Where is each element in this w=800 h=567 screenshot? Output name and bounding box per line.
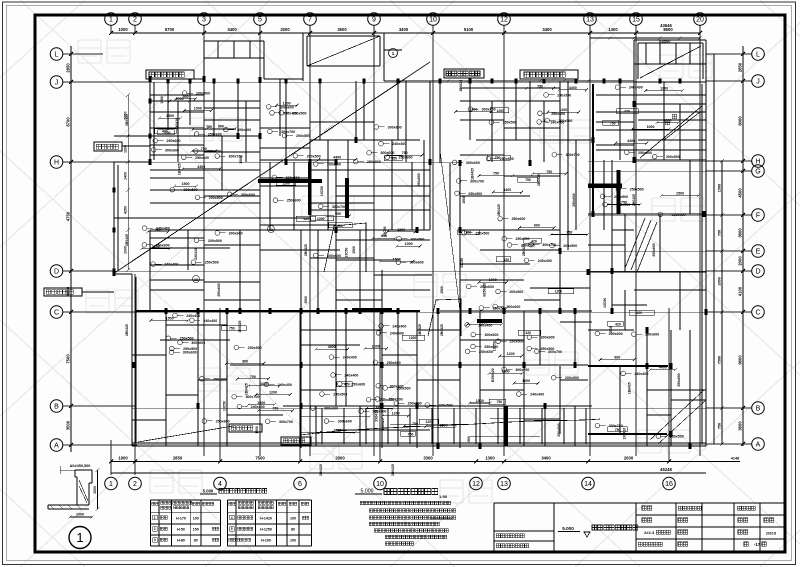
svg-text:300x600: 300x600 (237, 128, 251, 132)
heavy bar C4 (477, 319, 502, 323)
svg-text:3400: 3400 (227, 27, 237, 32)
svg-text:9: 9 (372, 17, 376, 24)
svg-text:7500: 7500 (255, 456, 265, 461)
svg-text:250x500: 250x500 (500, 157, 514, 161)
svg-text:240x400: 240x400 (634, 372, 648, 376)
svg-text:4400: 4400 (627, 139, 635, 143)
svg-text:750: 750 (408, 432, 414, 436)
svg-text:A0#450,500: A0#450,500 (70, 464, 91, 468)
svg-text:8000: 8000 (738, 116, 743, 126)
svg-text:240x400: 240x400 (629, 86, 643, 90)
svg-text:900: 900 (534, 224, 540, 228)
svg-text:300x600: 300x600 (338, 420, 352, 424)
svg-text:5700: 5700 (165, 27, 175, 32)
svg-text:250x500: 250x500 (557, 93, 571, 97)
svg-text:1B0425: 1B0425 (178, 163, 182, 175)
svg-text:2: 2 (133, 17, 137, 24)
svg-text:240x400: 240x400 (186, 314, 200, 318)
svg-text:750: 750 (272, 407, 278, 411)
svg-text:13C50: 13C50 (222, 401, 226, 411)
svg-text:900: 900 (381, 234, 387, 238)
svg-text:250x600: 250x600 (417, 173, 421, 186)
svg-text:1500: 1500 (239, 156, 243, 164)
svg-text:200x500: 200x500 (286, 176, 300, 180)
svg-text:250x600: 250x600 (557, 423, 561, 436)
svg-text:3: 3 (202, 17, 206, 24)
svg-text:6: 6 (298, 481, 302, 488)
svg-text:750: 750 (412, 422, 418, 426)
svg-text:750: 750 (566, 231, 572, 235)
svg-text:200x500: 200x500 (209, 196, 223, 200)
svg-text:H-50: H-50 (177, 528, 185, 532)
svg-text:H-100: H-100 (261, 539, 271, 543)
svg-text:250x600: 250x600 (195, 156, 209, 160)
svg-text:13C50: 13C50 (603, 298, 607, 308)
svg-text:G: G (755, 169, 760, 176)
svg-text:1500: 1500 (166, 316, 174, 320)
svg-text:240x400: 240x400 (283, 111, 297, 115)
svg-text:1000: 1000 (176, 97, 184, 101)
svg-text:13C50: 13C50 (460, 258, 464, 268)
svg-text:1500: 1500 (255, 426, 259, 434)
canopy label bottom (229, 424, 262, 432)
svg-text:300x600: 300x600 (506, 305, 520, 309)
svg-text:300x700: 300x700 (279, 420, 293, 424)
svg-text:300x600: 300x600 (183, 351, 197, 355)
svg-text:H-1420: H-1420 (260, 516, 272, 520)
svg-text:300x700: 300x700 (207, 150, 221, 154)
svg-text:80: 80 (194, 539, 198, 543)
svg-text:4750: 4750 (66, 211, 71, 221)
svg-text:300x700: 300x700 (609, 424, 623, 428)
title block (494, 503, 785, 551)
heavy bar left mid (345, 178, 349, 218)
svg-text:14: 14 (584, 481, 592, 488)
svg-text:3500: 3500 (66, 420, 71, 430)
svg-text:4400: 4400 (569, 86, 577, 90)
svg-text:250x600: 250x600 (351, 382, 365, 386)
svg-text:1200: 1200 (269, 391, 277, 395)
svg-text:750: 750 (621, 200, 627, 204)
svg-text:750: 750 (525, 178, 531, 182)
svg-text:1500: 1500 (440, 286, 444, 294)
svg-text:300x600: 300x600 (466, 161, 480, 165)
svg-text:1500: 1500 (676, 191, 684, 195)
svg-text:300x700: 300x700 (281, 130, 295, 134)
svg-text:250x600: 250x600 (645, 333, 659, 337)
svg-text:1200: 1200 (409, 336, 417, 340)
svg-text:250x500: 250x500 (503, 121, 517, 125)
svg-text:C: C (755, 310, 760, 317)
bottom axis circles (105, 477, 118, 490)
small column blobs (148, 76, 151, 82)
svg-text:13: 13 (586, 17, 594, 24)
svg-text:2010.8: 2010.8 (766, 532, 776, 536)
svg-text:1B0425: 1B0425 (244, 383, 248, 395)
svg-text:1500: 1500 (718, 184, 722, 192)
title block right cells (642, 506, 646, 510)
svg-text:4400: 4400 (260, 382, 268, 386)
axis stubs horizontal (63, 53, 103, 55)
svg-text:3: 3 (154, 538, 156, 542)
detail number circle (69, 527, 91, 549)
svg-text:2B0425: 2B0425 (125, 114, 129, 126)
svg-text:750: 750 (718, 230, 722, 236)
svg-text:250x600: 250x600 (217, 283, 221, 296)
svg-text:5: 5 (258, 17, 262, 24)
svg-text:300x600: 300x600 (541, 336, 555, 340)
interior beams horizontal (150, 100, 260, 102)
svg-text:1500: 1500 (160, 96, 164, 104)
svg-text:B250x20: B250x20 (491, 368, 495, 382)
svg-text:1B0425: 1B0425 (418, 324, 422, 336)
svg-text:200x500: 200x500 (208, 239, 222, 243)
svg-text:900: 900 (481, 321, 487, 325)
svg-text:420: 420 (303, 217, 309, 221)
diagonal tag circles (268, 226, 275, 233)
svg-text:2X0416: 2X0416 (623, 428, 627, 440)
svg-text:250x600: 250x600 (216, 419, 230, 423)
svg-text:2X0416: 2X0416 (194, 248, 198, 260)
svg-text:240x400: 240x400 (251, 405, 265, 409)
thick beam axis C (135, 310, 420, 312)
svg-text:2850: 2850 (66, 63, 71, 73)
svg-text:200x500: 200x500 (439, 404, 453, 408)
svg-text:5: 5 (231, 527, 233, 531)
svg-text:1:50: 1:50 (439, 494, 448, 499)
svg-text:300x600: 300x600 (380, 151, 394, 155)
svg-text:1500: 1500 (467, 436, 471, 444)
svg-text:900: 900 (335, 212, 341, 216)
svg-text:750: 750 (201, 147, 207, 151)
svg-text:1B0425: 1B0425 (627, 382, 631, 394)
svg-text:2000: 2000 (280, 27, 290, 32)
svg-text:7: 7 (308, 17, 312, 24)
svg-text:300x600: 300x600 (327, 254, 341, 258)
svg-text:300x700: 300x700 (566, 153, 580, 157)
svg-text:200x500: 200x500 (408, 402, 422, 406)
svg-text:E: E (756, 249, 761, 256)
right axis circles (752, 48, 765, 61)
svg-text:250x500: 250x500 (468, 192, 482, 196)
watermark glyphs (78, 40, 712, 503)
svg-text:750: 750 (250, 375, 256, 379)
heavy cross wall (588, 184, 622, 189)
svg-text:240x400: 240x400 (156, 227, 170, 231)
svg-text:2B0425: 2B0425 (537, 174, 541, 186)
svg-text:100: 100 (290, 539, 296, 543)
svg-text:8700: 8700 (66, 117, 71, 127)
svg-text:2B0425: 2B0425 (125, 234, 129, 246)
svg-text:3300: 3300 (423, 456, 433, 461)
aircon label bottom (281, 437, 311, 445)
columns along C beam and top edge (164, 308, 167, 314)
svg-text:1200: 1200 (376, 405, 384, 409)
svg-text:1200: 1200 (660, 87, 668, 91)
ramp trapezoid 2 (428, 299, 461, 336)
svg-text:5100: 5100 (464, 27, 474, 32)
left axis circles (50, 48, 63, 61)
svg-text:200x500: 200x500 (327, 162, 341, 166)
svg-text:250x500: 250x500 (614, 195, 628, 199)
heavy bar top mid (352, 308, 392, 312)
svg-text:2X0416: 2X0416 (375, 410, 379, 422)
svg-text:900: 900 (614, 356, 620, 360)
mid band extra beams (150, 247, 230, 249)
canopy label boxes on top edge (146, 70, 194, 79)
svg-text:3600: 3600 (738, 421, 743, 431)
svg-text:1200: 1200 (392, 412, 400, 416)
svg-text:13C50: 13C50 (320, 186, 324, 196)
svg-text:1500: 1500 (462, 196, 466, 204)
svg-text:F: F (756, 213, 760, 220)
wall parallels (117, 165, 119, 271)
svg-text:420: 420 (525, 331, 531, 335)
svg-text:250x500: 250x500 (180, 337, 194, 341)
svg-text:250x600: 250x600 (551, 112, 565, 116)
svg-text:1000: 1000 (194, 107, 202, 111)
svg-text:C: C (54, 310, 59, 317)
svg-text:2: 2 (133, 481, 137, 488)
svg-text:1000: 1000 (489, 278, 497, 282)
big ramp diagonal (113, 62, 430, 274)
svg-text:1400: 1400 (124, 172, 128, 180)
svg-text:1000: 1000 (647, 125, 655, 129)
svg-text:1: 1 (76, 530, 83, 545)
svg-text:750: 750 (537, 84, 543, 88)
svg-text:3400: 3400 (541, 456, 551, 461)
svg-text:250x600: 250x600 (167, 139, 181, 143)
svg-text:2#2-3: 2#2-3 (644, 530, 655, 535)
svg-text:100: 100 (290, 516, 296, 520)
svg-text:250x500: 250x500 (540, 347, 554, 351)
notes block (360, 501, 364, 505)
svg-text:1500: 1500 (609, 326, 613, 334)
svg-text:250x500: 250x500 (205, 261, 219, 265)
svg-text:7500: 7500 (66, 354, 71, 364)
svg-text:1: 1 (109, 481, 113, 488)
svg-text:1300: 1300 (608, 27, 618, 32)
bottom balcony strip divisions (299, 408, 301, 444)
svg-text:D: D (755, 269, 760, 276)
svg-text:1500: 1500 (440, 424, 448, 428)
building outline walls (150, 78, 204, 80)
svg-text:1000: 1000 (372, 345, 380, 349)
svg-text:250x600: 250x600 (398, 156, 412, 160)
table 1 (150, 500, 152, 546)
svg-text:250x500: 250x500 (670, 435, 684, 439)
svg-text:420: 420 (636, 311, 642, 315)
svg-text:250x600: 250x600 (677, 373, 681, 386)
svg-text:4400: 4400 (197, 165, 205, 169)
heavy bar bottom (504, 406, 509, 446)
svg-text:H-80: H-80 (177, 539, 185, 543)
svg-text:43646: 43646 (660, 23, 672, 28)
svg-text:2850: 2850 (738, 62, 743, 72)
svg-text:2000: 2000 (738, 256, 743, 266)
svg-text:200x500: 200x500 (410, 237, 424, 241)
svg-text:420: 420 (503, 258, 509, 262)
svg-text:2B0425: 2B0425 (391, 464, 395, 476)
svg-text:1000: 1000 (405, 242, 413, 246)
svg-text:B: B (756, 406, 761, 413)
stair flight diagonals (625, 218, 645, 268)
svg-text:80: 80 (291, 528, 295, 532)
svg-text:2B0425: 2B0425 (304, 244, 308, 256)
svg-text:1000: 1000 (76, 513, 84, 517)
svg-text:250x500: 250x500 (307, 154, 321, 158)
svg-text:13C50: 13C50 (344, 247, 348, 257)
svg-text:420: 420 (162, 130, 168, 134)
top axis circles (105, 13, 118, 26)
svg-text:2: 2 (154, 527, 156, 531)
svg-text:2B0425: 2B0425 (632, 194, 636, 206)
svg-text:750: 750 (497, 400, 503, 404)
svg-text:2000: 2000 (335, 456, 345, 461)
svg-text:1200: 1200 (555, 290, 563, 294)
top box A (stair bulkhead) (204, 40, 264, 42)
svg-text:3400: 3400 (399, 27, 409, 32)
svg-text:300x600: 300x600 (484, 333, 498, 337)
svg-text:2X0416: 2X0416 (175, 118, 179, 130)
svg-text:1000: 1000 (333, 429, 341, 433)
svg-text:250x500: 250x500 (248, 346, 262, 350)
svg-text:13C50: 13C50 (493, 341, 497, 351)
bottom-left diagonal (138, 426, 233, 442)
svg-text:300x600: 300x600 (191, 341, 205, 345)
svg-text:1200: 1200 (335, 224, 343, 228)
svg-text:1900: 1900 (118, 456, 128, 461)
svg-text:1500: 1500 (476, 399, 484, 403)
svg-text:4148: 4148 (731, 457, 739, 461)
wavy slab edge (300, 419, 600, 435)
svg-text:H-170: H-170 (176, 516, 186, 520)
svg-text:420: 420 (615, 322, 621, 326)
svg-text:150: 150 (193, 528, 199, 532)
interior walls vertical (165, 311, 167, 446)
svg-text:5.000: 5.000 (203, 489, 214, 494)
svg-text:200x500: 200x500 (296, 134, 310, 138)
svg-text:5.000: 5.000 (562, 526, 574, 531)
svg-text:300x600: 300x600 (229, 231, 243, 235)
svg-text:2850: 2850 (173, 456, 183, 461)
svg-text:L: L (55, 52, 59, 59)
svg-text:250x600: 250x600 (652, 243, 656, 256)
svg-text:2B0425: 2B0425 (522, 244, 526, 256)
svg-text:240x400: 240x400 (343, 356, 357, 360)
svg-text:20: 20 (696, 17, 704, 24)
svg-text:1300: 1300 (502, 369, 510, 373)
svg-text:750: 750 (493, 172, 499, 176)
svg-text:300x600: 300x600 (410, 261, 424, 265)
heavy T wall mid (258, 179, 322, 183)
svg-text:420: 420 (624, 110, 630, 114)
right-bottom diagonals (650, 390, 704, 440)
svg-text:250x600: 250x600 (511, 217, 525, 221)
svg-text:1200: 1200 (282, 181, 290, 185)
svg-text:4400: 4400 (333, 156, 341, 160)
svg-text:200x500: 200x500 (563, 244, 577, 248)
svg-text:45248: 45248 (660, 467, 672, 472)
svg-text:200x500: 200x500 (333, 393, 347, 397)
svg-text:300x700: 300x700 (332, 205, 346, 209)
svg-text:1200: 1200 (497, 109, 505, 113)
extra upper-left beams (150, 111, 204, 113)
core interior extra (645, 43, 647, 64)
svg-text:1000: 1000 (124, 246, 128, 254)
aircon slab label left 1 (94, 142, 122, 151)
svg-text:2000: 2000 (624, 456, 634, 461)
svg-text:750: 750 (402, 151, 408, 155)
svg-text:12: 12 (500, 17, 508, 24)
svg-text:200x500: 200x500 (565, 376, 579, 380)
svg-text:250x600: 250x600 (156, 243, 170, 247)
thick wall x593 (592, 84, 594, 216)
svg-text:240x400: 240x400 (164, 263, 178, 267)
svg-text:2B0425: 2B0425 (497, 204, 501, 216)
svg-text:L: L (756, 52, 760, 59)
svg-text:13: 13 (500, 481, 508, 488)
svg-text:4500: 4500 (738, 188, 743, 198)
svg-text:3600: 3600 (738, 228, 743, 238)
svg-text:1500: 1500 (181, 182, 189, 186)
svg-text:1B0425: 1B0425 (470, 168, 474, 180)
bottom dimension line (111, 461, 706, 463)
svg-text:200x500: 200x500 (509, 290, 523, 294)
svg-text:750: 750 (610, 121, 616, 125)
right room beams (596, 94, 706, 96)
svg-text:J: J (55, 80, 59, 87)
svg-text:750: 750 (718, 423, 722, 429)
top-right stair core (634, 39, 706, 41)
svg-text:A: A (756, 442, 761, 449)
left dimension line (70, 46, 72, 452)
svg-text:H-1250: H-1250 (260, 528, 272, 532)
svg-text:240x400: 240x400 (344, 373, 358, 377)
svg-text:H: H (54, 160, 59, 167)
svg-text:1500: 1500 (352, 246, 356, 254)
core diagonals (640, 46, 701, 78)
svg-text:420: 420 (344, 383, 350, 387)
svg-text:15: 15 (632, 17, 640, 24)
svg-text:1: 1 (154, 516, 156, 520)
svg-text:4400: 4400 (503, 188, 511, 192)
aircon slab label left 2 (44, 288, 82, 296)
right inner dim (721, 161, 723, 444)
svg-text:250x500: 250x500 (672, 213, 686, 217)
svg-text:1200: 1200 (426, 420, 434, 424)
svg-text:300x600: 300x600 (388, 125, 402, 129)
svg-text:250x600: 250x600 (387, 361, 401, 365)
svg-text:9600: 9600 (738, 355, 743, 365)
svg-text:10: 10 (429, 17, 437, 24)
svg-text:4400: 4400 (328, 345, 336, 349)
svg-text:2B0425: 2B0425 (125, 324, 129, 336)
svg-text:1: 1 (109, 17, 113, 24)
svg-text:1B0425: 1B0425 (381, 418, 385, 430)
svg-text:1000: 1000 (664, 119, 672, 123)
svg-text:240x400: 240x400 (392, 324, 406, 328)
svg-text:1000: 1000 (118, 27, 128, 32)
section mark 1 (389, 49, 398, 58)
svg-text:750: 750 (615, 428, 621, 432)
svg-text:300x700: 300x700 (482, 108, 496, 112)
svg-text:200x500: 200x500 (558, 119, 572, 123)
svg-text:240x400: 240x400 (530, 393, 544, 397)
svg-text:B: B (54, 404, 59, 411)
svg-text:240x400: 240x400 (380, 398, 394, 402)
svg-text:D: D (54, 269, 59, 276)
